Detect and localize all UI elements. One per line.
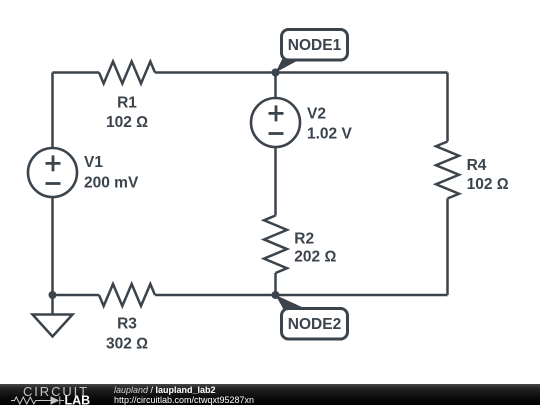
wire middle vertical top	[274, 73, 277, 99]
wire middle vertical bottom	[274, 273, 277, 295]
svg-text:V2: V2	[307, 106, 326, 123]
voltage source V2	[251, 98, 300, 147]
svg-text:102 Ω: 102 Ω	[106, 114, 148, 131]
svg-text:R1: R1	[117, 94, 137, 111]
node NODE1 box	[282, 30, 348, 61]
ground	[51, 295, 54, 315]
wire top-left horizontal	[53, 71, 100, 74]
node junction dot NODE1	[272, 69, 280, 77]
node junction dot ground	[49, 291, 57, 299]
svg-text:R3: R3	[117, 315, 137, 332]
CircuitLab logo	[0, 384, 100, 405]
resistor R4	[436, 142, 459, 199]
resistor R1	[99, 62, 155, 84]
resistor R3	[99, 284, 155, 306]
svg-text:102 Ω: 102 Ω	[467, 176, 509, 193]
node junction dot NODE2	[272, 291, 280, 299]
wire bottom-left horizontal	[53, 294, 100, 297]
wire left vertical upper	[51, 73, 54, 149]
svg-text:LAB: LAB	[65, 394, 91, 405]
svg-text:V1: V1	[84, 154, 103, 171]
svg-text:R2: R2	[294, 231, 314, 248]
wire right vertical lower	[446, 199, 449, 296]
node NODE1 pointer	[276, 59, 302, 73]
node NODE2 box	[282, 309, 348, 340]
svg-text:NODE2: NODE2	[288, 316, 341, 333]
wire middle vertical between V2 and R2	[274, 147, 277, 216]
node NODE2 pointer	[276, 295, 310, 310]
svg-text:R4: R4	[467, 157, 487, 174]
svg-text:202 Ω: 202 Ω	[294, 249, 336, 266]
svg-text:NODE1: NODE1	[288, 37, 342, 54]
svg-text:200 mV: 200 mV	[84, 175, 139, 192]
voltage source V1	[28, 148, 77, 197]
wire bottom middle to right	[155, 294, 448, 297]
wire left vertical lower	[51, 197, 54, 295]
wire right vertical upper	[446, 73, 449, 142]
svg-text:302 Ω: 302 Ω	[106, 335, 148, 352]
resistor R2	[264, 216, 287, 274]
svg-text:1.02 V: 1.02 V	[307, 126, 352, 143]
wire top middle to right	[155, 71, 448, 74]
